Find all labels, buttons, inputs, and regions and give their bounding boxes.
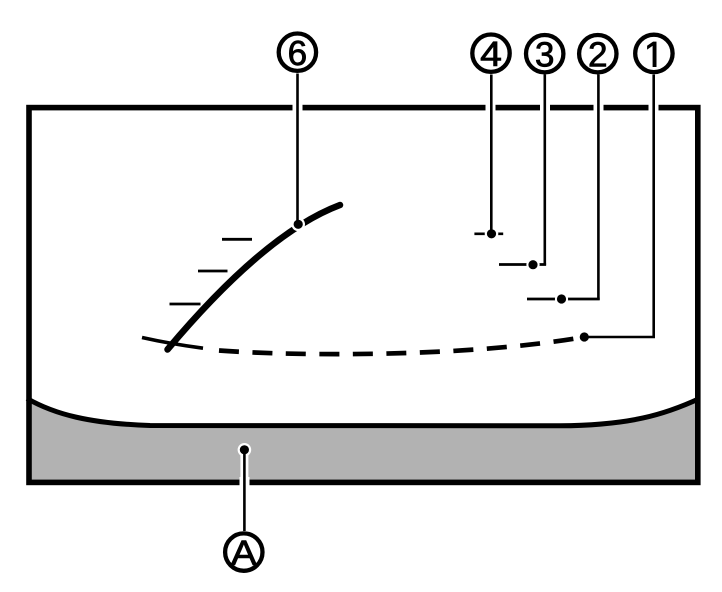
leader line 4 [490,75,493,234]
bumper area A (gray band fill) [29,399,698,483]
distance mark 4 (dashed) [474,232,503,235]
callout circle 3 [526,35,563,72]
frame gap for leader 4 [486,103,496,113]
leader line 3 [543,75,546,266]
frame gap for leader 2 [594,103,604,113]
digit 3 [536,42,553,67]
callout circle 6 [279,34,316,71]
tick mark upper [222,238,252,241]
leader line 1 horizontal [584,336,655,339]
callout circle 2 [579,35,616,72]
dot halo 4 [485,227,499,241]
display frame border [29,108,698,483]
dot halo 1 [578,330,592,344]
frame gap for leader A [240,477,250,488]
frame gap for leader 3 [540,103,550,113]
leader line A casing [240,450,248,489]
tick mark lower [170,303,201,306]
distance mark 3 [499,263,546,266]
dot halo 3 [526,258,539,271]
leader line 2 [597,75,600,300]
dashed distance curve [219,337,584,354]
dot halo A [238,443,252,457]
callout circle 4 [472,35,509,72]
callout circle 1 [635,35,672,72]
bumper top edge curve [27,399,700,426]
dot 3 [528,260,537,269]
dot halo 6 [291,218,305,232]
callout circle A [225,533,262,570]
distance mark 2 [527,298,600,301]
frame gap for leader 6 [293,103,303,113]
dot 2 [557,294,566,303]
digit 1 [648,42,657,67]
digit 6 [289,41,305,66]
leader line 1 vertical [652,75,655,338]
digit 4 [481,42,501,66]
dot 4 [487,229,496,238]
dot halo 2 [555,292,568,305]
frame gap for leader 1 [649,103,659,113]
dot A [240,445,249,454]
dot 1 [580,332,589,341]
leader line A [243,450,246,531]
dot 6 [294,220,303,229]
tick mark middle [198,270,228,273]
digit A [231,541,257,565]
steering guide solid curve [168,205,341,350]
leader line 6 [296,74,299,225]
dashed distance curve first segment [142,338,203,349]
digit 2 [590,42,606,66]
